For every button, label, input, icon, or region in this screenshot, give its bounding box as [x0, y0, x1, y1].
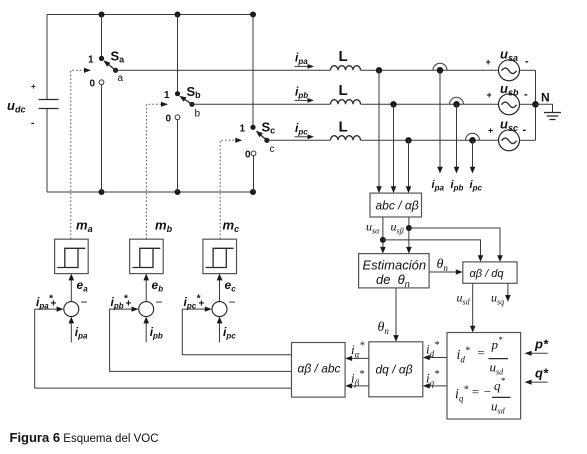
- wire ipc* reference from abc block to summing c: [182, 294, 291, 355]
- svg-text:L: L: [339, 48, 348, 65]
- summing junction a: [51, 295, 88, 317]
- svg-text:0: 0: [245, 150, 251, 161]
- svg-text:+: +: [486, 57, 491, 67]
- wire phase c after inductor: [361, 139, 500, 141]
- wire sensor b measurement with arrow: [454, 104, 460, 173]
- svg-text:0: 0: [90, 79, 96, 90]
- wire phase b: [192, 103, 331, 105]
- wire N to ground: [536, 104, 553, 112]
- svg-text:q*: q*: [535, 366, 549, 381]
- svg-text:-: -: [525, 56, 529, 68]
- hysteresis comparator block a: [55, 239, 89, 273]
- wire eb error to comparator b with arrow: [143, 274, 163, 302]
- current sensor phase c: [466, 133, 480, 143]
- node bottom bus leg c: [250, 189, 256, 195]
- node bottom bus leg a: [99, 189, 105, 195]
- svg-text:L: L: [339, 82, 348, 99]
- wire phase c: [267, 139, 331, 141]
- wire left vertical upper: [46, 15, 48, 100]
- wire phase b after inductor: [361, 103, 500, 105]
- wire leg b lower: [177, 120, 179, 192]
- wire phase a junction to abc block with arrow: [376, 70, 382, 193]
- node usbeta junction: [406, 225, 412, 231]
- wire sensor a measurement with arrow: [437, 70, 443, 173]
- svg-text:L: L: [339, 119, 348, 136]
- svg-text:Figura 6 Esquema del VOC: Figura 6 Esquema del VOC: [10, 430, 159, 445]
- svg-text:-: -: [524, 88, 528, 100]
- wire bottom DC bus: [47, 191, 253, 193]
- wire usd to formula block with arrow: [470, 283, 476, 332]
- wire usq stub with arrow: [505, 283, 511, 301]
- AC source usa: [486, 47, 530, 81]
- inductor L phase c: [331, 119, 361, 141]
- wire usa to right bus: [520, 69, 536, 71]
- wire theta to alphabeta-dq with arrow: [429, 257, 463, 275]
- label ipa with arrow: [295, 51, 315, 69]
- hysteresis comparator block c: [203, 239, 237, 273]
- block estimation of theta: [359, 254, 430, 289]
- ground: [544, 113, 561, 120]
- current sensor phase b: [450, 97, 464, 107]
- AC source usb: [487, 81, 529, 115]
- wire right neutral bus: [535, 70, 537, 140]
- wire q* input with arrow: [525, 366, 549, 385]
- svg-text:a: a: [118, 73, 124, 84]
- node bottom bus leg b: [175, 189, 181, 195]
- node usalpha junction: [380, 237, 386, 243]
- node N: [532, 91, 549, 108]
- svg-text:1: 1: [88, 55, 94, 66]
- svg-text:+: +: [487, 90, 492, 100]
- wire leg a lower: [101, 85, 103, 192]
- svg-text:+: +: [488, 126, 493, 136]
- svg-text:−: −: [81, 295, 88, 309]
- wire id* from formulas to dq/alphabeta with arrow: [423, 340, 447, 360]
- wire ipb* reference from abc block to summing b: [110, 294, 292, 372]
- wire gate signal mb dotted: [146, 102, 168, 239]
- wire usbeta from abc block to estimation with arrow: [406, 217, 412, 254]
- wire usalpha from abc block to estimation with arrow: [380, 217, 386, 254]
- block abc/alphabeta transform: [370, 193, 422, 217]
- current sensor phase a: [433, 63, 447, 73]
- svg-text:-: -: [31, 118, 34, 129]
- svg-text:N: N: [541, 91, 550, 105]
- capacitor udc: [7, 82, 59, 129]
- switch Sc: [240, 120, 276, 161]
- wire usbeta to alphabeta-dq block with arrow: [409, 228, 503, 262]
- wire phase a after inductor: [361, 69, 499, 71]
- wire leg b upper: [177, 15, 179, 94]
- svg-text:dq / αβ: dq / αβ: [376, 363, 413, 377]
- wire top DC bus: [47, 14, 253, 16]
- wire usalpha to alphabeta-dq block with arrow: [383, 240, 483, 262]
- svg-text:abc / αβ: abc / αβ: [376, 199, 419, 213]
- wire ipa measured into summing a: [69, 317, 89, 343]
- wire theta from estimation to dq/alphabeta with arrow: [378, 288, 399, 342]
- svg-text:p*: p*: [534, 337, 549, 352]
- svg-text:Estimación: Estimación: [363, 258, 427, 273]
- node top bus leg b: [175, 12, 181, 18]
- wire leg c upper: [252, 15, 254, 128]
- svg-text:-: -: [523, 124, 527, 136]
- summing junction b: [126, 295, 163, 317]
- svg-text:−: −: [156, 295, 163, 309]
- wire sensor c measurement with arrow: [470, 140, 476, 173]
- wire leg a upper: [101, 15, 103, 59]
- wire ipc measured into summing c: [217, 317, 237, 343]
- AC source usc: [488, 117, 527, 151]
- wire ipa* reference from abc block to summing a: [35, 294, 292, 389]
- node phase b junction: [390, 101, 396, 107]
- wire phase c junction to abc block with arrow: [406, 140, 412, 193]
- switch Sa: [88, 49, 125, 90]
- wire gate signal mc dotted: [220, 138, 242, 239]
- wire usb to node N: [520, 103, 536, 105]
- block current reference formulas: [447, 333, 521, 420]
- label ipc with arrow: [295, 121, 315, 139]
- svg-text:de θn: de θn: [376, 272, 410, 289]
- svg-text:0: 0: [166, 114, 172, 125]
- block alphabeta/dq transform: [463, 262, 517, 283]
- wire ipb measured into summing b: [143, 317, 163, 343]
- svg-text:1: 1: [164, 90, 170, 101]
- svg-text:αβ / dq: αβ / dq: [470, 268, 505, 280]
- block alphabeta/abc transform: [292, 343, 346, 398]
- node top bus leg c: [250, 12, 256, 18]
- node phase a junction: [376, 67, 382, 73]
- node top bus leg a: [99, 12, 105, 18]
- wire p* input with arrow: [525, 337, 549, 356]
- label ipb with arrow: [295, 85, 315, 103]
- svg-text:= −: = −: [471, 384, 492, 399]
- wire usc to right bus: [520, 139, 536, 141]
- switch Sb: [164, 84, 201, 125]
- wire phase b junction to abc block with arrow: [391, 104, 397, 193]
- summing junction c: [199, 295, 236, 317]
- node phase c junction: [405, 137, 411, 143]
- inductor L phase a: [331, 48, 361, 70]
- svg-text:αβ / abc: αβ / abc: [298, 362, 341, 376]
- block dq/alphabeta transform: [369, 342, 423, 397]
- wire ec error to comparator c with arrow: [217, 274, 236, 302]
- wire phase a: [116, 69, 331, 71]
- svg-text:b: b: [195, 109, 201, 120]
- wire gate signal ma dotted: [71, 68, 91, 239]
- wire ibeta* from dq/alphabeta to alphabeta/abc with arrow: [345, 369, 369, 389]
- svg-text:+: +: [31, 82, 36, 91]
- wire ialpha* from dq/alphabeta to alphabeta/abc with arrow: [345, 341, 369, 362]
- svg-text:=: =: [477, 345, 486, 360]
- hysteresis comparator block b: [130, 239, 164, 273]
- svg-text:c: c: [270, 144, 275, 155]
- wire left vertical lower: [46, 109, 48, 192]
- svg-text:−: −: [229, 295, 236, 309]
- wire leg c lower: [253, 156, 255, 192]
- inductor L phase b: [331, 82, 361, 104]
- svg-text:1: 1: [240, 124, 246, 135]
- wire iq* from formulas to dq/alphabeta with arrow: [423, 369, 447, 389]
- wire ea error to comparator a with arrow: [69, 274, 89, 302]
